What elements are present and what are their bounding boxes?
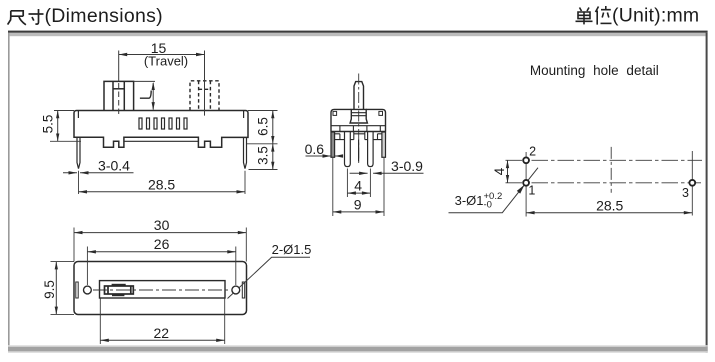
svg-text:1: 1: [528, 184, 535, 198]
border frame top inner gray band: [10, 33, 706, 36]
svg-text:3-0.4: 3-0.4: [98, 157, 130, 173]
side view right leg: [368, 132, 374, 167]
svg-text:6.5: 6.5: [256, 117, 271, 136]
dimension 28.5 line: [79, 191, 246, 193]
dimension 28.5 extension lines: [79, 171, 246, 194]
svg-text:2-Ø1.5: 2-Ø1.5: [272, 242, 312, 257]
unit 位 (chinese glyph): [596, 6, 612, 25]
dimension 15 arrow right: [196, 53, 205, 56]
svg-text:30: 30: [154, 217, 170, 233]
dimension 15 travel line: [119, 54, 205, 56]
dimension 3.5 arrows: [271, 144, 274, 152]
svg-text:28.5: 28.5: [596, 197, 623, 213]
side view right mounting tab: [382, 132, 386, 157]
top view left tab mark: [76, 282, 78, 298]
dimension 5.5 extension lines: [50, 111, 81, 142]
front view knob centerline solid part: [118, 51, 120, 82]
front view left pin: [77, 137, 80, 168]
front view body middle lower edge line: [124, 140, 198, 142]
svg-text:0.6: 0.6: [305, 141, 325, 157]
dimension 9.5 line and arrows: [55, 262, 57, 315]
svg-text:(Unit):mm: (Unit):mm: [612, 4, 699, 26]
front view knob centerline dashed part: [118, 83, 120, 116]
detail centerline through hole 2: [506, 159, 703, 161]
dimension 22 line and arrows: [100, 339, 224, 341]
knob height double arrow: [152, 83, 154, 110]
detail vertical centerline middle: [610, 147, 612, 193]
detail centerline through holes 1 and 3: [506, 182, 702, 184]
svg-text:5.5: 5.5: [40, 115, 55, 134]
dimension 6.5 and 3.5 extension lines: [247, 111, 278, 170]
top view knob: [105, 286, 134, 294]
dimension 5.5 line: [57, 111, 59, 142]
dimension 4 detail line and arrows: [507, 160, 509, 183]
top view centerline: [93, 289, 231, 291]
border frame top dark line: [8, 31, 708, 33]
detail hole 2: [523, 157, 529, 163]
dimension 15 arrow left: [119, 53, 128, 56]
side view left mounting tab: [331, 132, 335, 157]
2-Ø1.5 leader line: [228, 257, 311, 298]
dimension 26 line and arrows: [87, 251, 235, 253]
svg-text:3: 3: [682, 186, 689, 200]
border frame right dark line: [706, 33, 708, 353]
svg-text:3-Ø1: 3-Ø1: [455, 193, 484, 208]
side view middle leg: [358, 140, 360, 162]
svg-text:(Travel): (Travel): [144, 53, 188, 68]
top view right tab mark: [242, 282, 244, 298]
top view left hole: [84, 286, 92, 294]
svg-text:3-0.9: 3-0.9: [391, 158, 423, 174]
svg-text:3.5: 3.5: [256, 146, 271, 165]
dimension 30 extension lines: [74, 228, 246, 262]
svg-text:4: 4: [354, 178, 362, 194]
top view knob top bump: [112, 284, 126, 286]
top view right hole: [232, 286, 240, 294]
dimension 6.5 arrows: [271, 111, 274, 119]
side view left leg: [345, 132, 351, 167]
title 尺 (chinese glyph): [8, 11, 26, 25]
front view right pin: [244, 137, 247, 168]
svg-text:9: 9: [354, 197, 362, 213]
side view shaft: [354, 82, 364, 110]
side view shaft centerline: [358, 74, 360, 164]
side view seam line: [331, 125, 386, 127]
dimension 3-0.9 lines and arrows: [350, 172, 424, 174]
front view cover corner tick right: [243, 111, 245, 119]
svg-text:-0: -0: [484, 200, 492, 211]
dimension 9 extension lines: [333, 158, 384, 216]
dimension 22 extension lines: [100, 299, 224, 345]
side view sub-base: [331, 132, 386, 140]
svg-text:22: 22: [154, 325, 170, 341]
front view slider knob dashed (travel end position): [190, 81, 219, 111]
side view seam verticals: [340, 126, 380, 132]
3-Ø1 leader line: [449, 168, 539, 213]
svg-text:28.5: 28.5: [148, 176, 175, 192]
detail vertical line through hole 3: [691, 151, 693, 216]
side view body outline: [331, 109, 386, 131]
dimension 4 side extension lines: [347, 169, 370, 198]
svg-text:(Dimensions): (Dimensions): [45, 5, 163, 27]
dimension 9.5 extension lines: [51, 262, 75, 315]
front view cover corner tick left: [77, 111, 79, 119]
svg-text:Mounting hole detail: Mounting hole detail: [530, 63, 659, 78]
dimension 4 side line and arrows: [347, 192, 370, 194]
side view corner tab mark right: [379, 111, 383, 115]
border frame left gray line: [8, 33, 10, 347]
title 寸 (chinese glyph): [29, 9, 44, 24]
dimension 26 extension lines: [87, 247, 235, 286]
dimension 6.5 line: [272, 111, 274, 144]
knob height L mark: [140, 91, 151, 99]
dimension 30 line and arrows: [74, 232, 246, 234]
dimension 5.5 arrows: [56, 111, 59, 119]
top view body outline: [74, 262, 247, 315]
dimension 28.5 arrows: [79, 190, 88, 193]
side view knob collar: [350, 109, 367, 123]
3-Ø1 leader arrow: [517, 185, 525, 194]
knob top extension line: [134, 80, 155, 82]
svg-text:2: 2: [529, 145, 536, 159]
detail hole 3: [689, 180, 695, 186]
svg-text:4: 4: [492, 167, 507, 175]
dimension 28.5 detail line and arrows: [526, 212, 692, 214]
front view body outline: [74, 111, 248, 148]
border frame bottom gray band: [8, 345, 708, 347]
dimension 0.6 lines and arrows: [306, 155, 344, 157]
top view slot: [100, 281, 226, 298]
front view ventilation slits: [139, 118, 187, 129]
svg-text:9.5: 9.5: [42, 280, 57, 299]
front view slider knob solid: [104, 81, 134, 110]
top view knob bottom bump: [112, 294, 124, 296]
dimension 3-0.4 lines and arrows: [63, 172, 134, 174]
unit 单 (chinese glyph): [576, 8, 593, 25]
detail hole 1: [523, 180, 529, 186]
front view dashed knob centerline: [204, 51, 206, 116]
side view corner tab mark left: [333, 111, 337, 115]
svg-text:26: 26: [154, 236, 170, 252]
dimension 9 line and arrows: [333, 211, 384, 213]
detail vertical line through holes 1 and 2: [525, 152, 527, 217]
dimension 3.5 line: [272, 144, 274, 170]
